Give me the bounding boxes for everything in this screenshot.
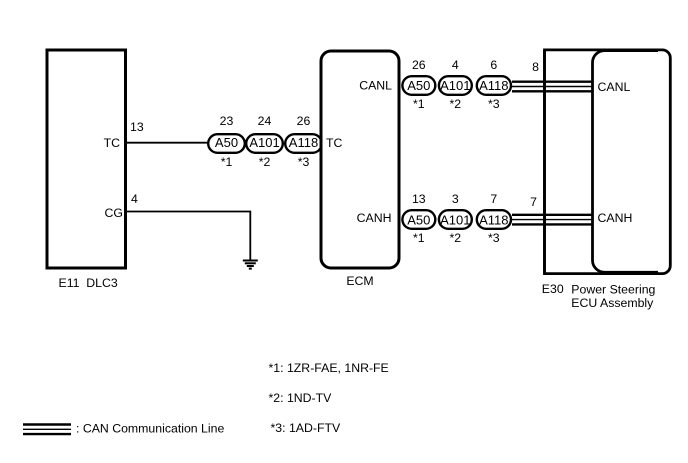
svg-text:Power Steering: Power Steering (571, 283, 655, 297)
connector A118 (CANH line) (477, 210, 511, 229)
connector A101 (CANL line) (439, 76, 472, 95)
svg-text:26: 26 (412, 58, 426, 72)
svg-text:*3: 1AD-FTV: *3: 1AD-FTV (271, 421, 341, 435)
connector A101 (TC line) (246, 134, 283, 153)
svg-text:*1: 1ZR-FAE, 1NR-FE: *1: 1ZR-FAE, 1NR-FE (269, 361, 389, 375)
connector E11 DLC3 box (47, 50, 126, 268)
svg-text:A101: A101 (440, 78, 470, 93)
svg-text:A118: A118 (479, 78, 508, 93)
svg-text:*1: *1 (221, 155, 233, 169)
connector A50 (TC line) (208, 134, 245, 153)
svg-text:*1: *1 (413, 231, 425, 245)
shield case of E30 power steering ECU (545, 50, 671, 274)
svg-text:A118: A118 (289, 135, 318, 150)
svg-text:6: 6 (490, 58, 497, 72)
svg-text:ECM: ECM (346, 274, 373, 288)
svg-text:E11 DLC3: E11 DLC3 (59, 276, 118, 290)
wire TC from DLC3 to connector A50 (127, 142, 209, 144)
svg-text:CANH: CANH (598, 211, 633, 225)
svg-text:23: 23 (220, 114, 234, 128)
svg-text:24: 24 (258, 114, 272, 128)
svg-text:A50: A50 (407, 78, 430, 93)
svg-text:26: 26 (297, 114, 311, 128)
svg-text:4: 4 (131, 192, 138, 206)
svg-text:*2: *2 (259, 155, 271, 169)
svg-text:CANL: CANL (359, 79, 392, 93)
svg-text:A118: A118 (479, 212, 508, 227)
svg-text:A101: A101 (440, 212, 470, 227)
connector A118 (CANL line) (477, 76, 511, 95)
svg-text:E30: E30 (542, 282, 564, 296)
svg-text:7: 7 (490, 192, 497, 206)
legend CAN communication line sample (23, 425, 71, 435)
svg-text:A101: A101 (249, 135, 279, 150)
connector A50 (CANL line) (402, 76, 435, 95)
svg-text:7: 7 (530, 195, 537, 209)
ECU ECM box (321, 51, 399, 268)
svg-text:A50: A50 (407, 212, 430, 227)
CAN line CANL into E30 (triple line across shield) (543, 82, 594, 92)
svg-text:13: 13 (130, 120, 144, 134)
svg-text:*3: *3 (488, 231, 500, 245)
connector A101 (CANH line) (439, 210, 472, 229)
shield left edge redraw over CANL lines (543, 50, 546, 274)
svg-text:TC: TC (326, 136, 343, 150)
svg-text:CG: CG (105, 206, 123, 220)
CAN communication line CANH (triple line) (512, 215, 593, 225)
wire CG from DLC3 to ground (127, 212, 250, 260)
CAN line CANH into E30 (triple line across shield) (543, 215, 594, 225)
svg-text:13: 13 (412, 192, 426, 206)
svg-text:*2: *2 (449, 231, 461, 245)
svg-text:*1: *1 (413, 97, 425, 111)
svg-text:*2: 1ND-TV: *2: 1ND-TV (269, 391, 333, 405)
ECU E30 Power Steering box (593, 51, 659, 273)
svg-text:CANL: CANL (598, 80, 631, 94)
svg-text:*3: *3 (488, 97, 500, 111)
svg-text:: CAN Communication Line: : CAN Communication Line (76, 422, 224, 436)
connector A118 (TC line) (285, 134, 322, 153)
svg-text:CANH: CANH (357, 211, 392, 225)
svg-text:*2: *2 (449, 97, 461, 111)
svg-text:ECU Assembly: ECU Assembly (571, 296, 654, 310)
ground symbol (243, 261, 258, 269)
CAN communication line CANL (triple line) (512, 82, 593, 92)
svg-text:4: 4 (452, 58, 459, 72)
svg-text:TC: TC (104, 136, 121, 150)
svg-text:3: 3 (452, 192, 459, 206)
svg-text:*3: *3 (298, 155, 310, 169)
svg-text:8: 8 (532, 60, 539, 74)
svg-text:A50: A50 (215, 135, 238, 150)
connector A50 (CANH line) (402, 210, 435, 229)
